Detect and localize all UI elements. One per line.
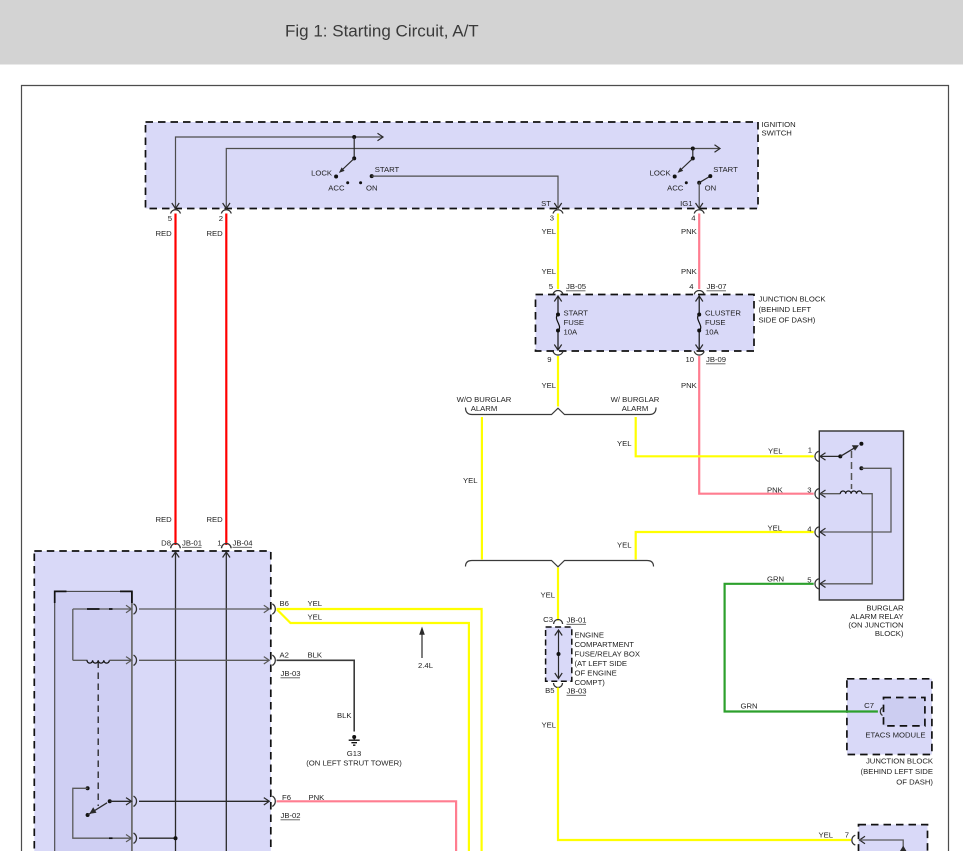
svg-text:YEL: YEL <box>768 447 783 456</box>
svg-text:YEL: YEL <box>463 476 478 485</box>
svg-text:YEL: YEL <box>308 599 323 608</box>
wire YEL from pin 3 to JB-05 <box>542 214 559 290</box>
wire JB-01 inside starter box <box>172 552 179 851</box>
starter relay row 2 wire (coil, to A2) <box>73 655 276 665</box>
relay pin 5 connector <box>807 576 825 589</box>
svg-text:ON: ON <box>705 183 717 192</box>
relay pin 3 connector <box>807 486 825 499</box>
relay switch <box>821 442 864 489</box>
svg-text:ST: ST <box>541 199 551 208</box>
svg-text:YEL: YEL <box>542 721 557 730</box>
engine compartment fuse/relay box <box>546 627 572 681</box>
svg-text:JB-07: JB-07 <box>707 282 727 291</box>
svg-text:(BEHIND LEFT SIDE: (BEHIND LEFT SIDE <box>861 767 933 776</box>
svg-text:START: START <box>564 309 589 318</box>
svg-text:PNK: PNK <box>681 227 698 236</box>
wire YEL B6 branch 1 <box>277 609 482 851</box>
svg-text:BLK: BLK <box>337 711 352 720</box>
svg-text:START: START <box>713 165 738 174</box>
svg-text:JB-02: JB-02 <box>281 811 301 820</box>
connector pin 10 / JB-09 <box>685 351 726 364</box>
wire IG1 from switch 2 <box>680 183 703 209</box>
svg-text:C3: C3 <box>543 615 553 624</box>
svg-text:ACC: ACC <box>667 183 684 192</box>
lower merge brace <box>466 561 654 567</box>
relay contact to pin 4 <box>821 466 892 532</box>
starter relay row 4 wire (to JB-01 node) <box>73 786 178 843</box>
connector pin 9 <box>547 351 563 364</box>
connector 1 / JB-04 <box>217 539 253 549</box>
svg-text:D8: D8 <box>161 539 171 548</box>
svg-text:Fig 1: Starting Circuit, A/T: Fig 1: Starting Circuit, A/T <box>285 22 479 41</box>
svg-text:B6: B6 <box>280 599 289 608</box>
svg-text:G13: G13 <box>347 749 362 758</box>
svg-text:ENGINE: ENGINE <box>575 631 604 640</box>
svg-text:RED: RED <box>207 229 224 238</box>
wire PNK from F6 <box>277 801 457 851</box>
wire ignition feed B (pin 2 branch) <box>223 145 720 209</box>
wire YEL left branch (W/O burglar alarm) <box>463 417 482 560</box>
svg-text:JB-01: JB-01 <box>182 539 202 548</box>
svg-text:YEL: YEL <box>617 439 632 448</box>
svg-text:SIDE OF DASH): SIDE OF DASH) <box>759 316 816 325</box>
starter relay coil loop <box>72 609 74 660</box>
wire YEL B6 branch 2 (2.4L) <box>277 610 469 852</box>
svg-text:CLUSTER: CLUSTER <box>705 309 741 318</box>
svg-text:LOCK: LOCK <box>311 168 333 177</box>
svg-text:JUNCTION BLOCK: JUNCTION BLOCK <box>759 295 827 304</box>
svg-text:10A: 10A <box>564 328 579 337</box>
svg-text:YEL: YEL <box>542 227 557 236</box>
svg-text:YEL: YEL <box>541 591 556 600</box>
svg-text:GRN: GRN <box>767 575 784 584</box>
connector C7 <box>864 701 882 716</box>
svg-text:(AT LEFT SIDE: (AT LEFT SIDE <box>575 659 628 668</box>
pin A2 labels / JB-03 <box>280 651 323 679</box>
svg-text:JB-09: JB-09 <box>706 355 726 364</box>
svg-text:IG1: IG1 <box>680 199 692 208</box>
svg-text:RED: RED <box>156 515 173 524</box>
svg-text:JB-03: JB-03 <box>281 669 301 678</box>
ground G13 <box>306 735 402 768</box>
svg-text:9: 9 <box>547 355 551 364</box>
svg-text:PNK: PNK <box>681 267 698 276</box>
wire RED from pin 2 <box>207 214 227 546</box>
2.4L pointer <box>418 627 434 671</box>
wire ignition feed A (pin 5 branch) <box>172 133 383 208</box>
svg-text:1: 1 <box>808 446 812 455</box>
wire BLK from A2 to ground <box>277 660 355 731</box>
ignition switch box <box>146 122 759 209</box>
svg-text:A2: A2 <box>280 651 289 660</box>
svg-text:YEL: YEL <box>617 541 632 550</box>
svg-text:COMPARTMENT: COMPARTMENT <box>575 640 635 649</box>
starter relay switch <box>86 799 112 817</box>
switch 2 (IG1 contact set) <box>650 149 738 193</box>
svg-text:START: START <box>375 165 400 174</box>
connector pin 3 of ignition switch <box>550 210 563 223</box>
svg-text:5: 5 <box>549 282 553 291</box>
svg-text:4: 4 <box>807 525 812 534</box>
burglar alarm relay box <box>819 431 903 600</box>
svg-text:JUNCTION BLOCK: JUNCTION BLOCK <box>866 757 934 766</box>
fuse START FUSE 10A <box>554 296 588 350</box>
relay coil <box>821 491 873 584</box>
branch labels W/O and W/ BURGLAR ALARM <box>457 395 660 413</box>
svg-text:FUSE/RELAY BOX: FUSE/RELAY BOX <box>575 650 641 659</box>
node on wire B <box>691 147 695 151</box>
wire YEL right branch to relay pin 1 <box>617 417 814 456</box>
svg-text:RED: RED <box>207 515 224 524</box>
starter relay row 3 wire (to F6) <box>110 796 276 806</box>
mechanical link dashed <box>97 662 99 807</box>
svg-text:FUSE: FUSE <box>705 318 726 327</box>
wire PNK from pin 4 to JB-07 <box>681 214 699 290</box>
svg-text:C7: C7 <box>864 701 874 710</box>
wire RED from pin 5 <box>156 214 176 546</box>
svg-text:YEL: YEL <box>542 381 557 390</box>
wire YEL from pin 9 <box>542 356 559 407</box>
svg-text:JB-05: JB-05 <box>566 282 586 291</box>
svg-text:2.4L: 2.4L <box>418 661 434 670</box>
svg-text:B5: B5 <box>545 686 554 695</box>
wire ST from switch 1 <box>372 176 562 208</box>
svg-text:GRN: GRN <box>741 702 758 711</box>
wire JB-04 inside starter box <box>223 552 230 851</box>
pin B6 labels <box>280 599 323 622</box>
starter relay box corner marks <box>55 591 132 603</box>
relay pin 4 connector <box>807 525 825 538</box>
svg-text:YEL: YEL <box>542 267 557 276</box>
engine compartment fuse box label <box>575 631 641 688</box>
starter relay inner box <box>55 591 132 853</box>
svg-text:YEL: YEL <box>819 831 834 840</box>
starter assembly dashed box <box>34 551 270 857</box>
connector D8 / JB-01 <box>161 539 202 549</box>
relay pin 1 connector <box>808 446 826 462</box>
svg-text:3: 3 <box>550 214 554 223</box>
svg-text:W/O BURGLAR: W/O BURGLAR <box>457 395 512 404</box>
svg-text:ALARM: ALARM <box>622 404 649 413</box>
svg-text:BLOCK): BLOCK) <box>875 629 904 638</box>
svg-text:PNK: PNK <box>681 381 698 390</box>
junction block (ETACS) outer box <box>847 679 932 755</box>
wire YEL from lower brace to C3 <box>541 568 559 621</box>
svg-text:YEL: YEL <box>768 524 783 533</box>
junction block (fuse box) <box>536 295 755 352</box>
switch 1 (ST contact set) <box>311 137 399 192</box>
svg-text:W/ BURGLAR: W/ BURGLAR <box>611 395 660 404</box>
connector pin 4 of ignition switch <box>691 210 704 223</box>
ETACS module inner box <box>884 698 925 726</box>
connector C3 / JB-01 <box>543 615 586 625</box>
svg-text:10A: 10A <box>705 328 720 337</box>
svg-text:(ON LEFT STRUT TOWER): (ON LEFT STRUT TOWER) <box>306 759 402 768</box>
svg-text:FUSE: FUSE <box>564 318 585 327</box>
svg-text:LOCK: LOCK <box>650 168 672 177</box>
svg-text:JB-04: JB-04 <box>233 539 254 548</box>
connector JB-07 <box>689 282 726 294</box>
junction block (dash) label <box>861 757 934 787</box>
svg-text:ON: ON <box>366 183 378 192</box>
wire inside engine compartment box <box>555 630 562 679</box>
svg-text:10: 10 <box>685 355 694 364</box>
svg-text:PNK: PNK <box>767 486 784 495</box>
svg-text:ETACS MODULE: ETACS MODULE <box>865 731 925 740</box>
upper split brace <box>466 408 657 415</box>
fuse CLUSTER FUSE 10A <box>696 296 742 350</box>
wire YEL from B5 to bottom connector 7 <box>542 688 852 841</box>
wire GRN from relay pin 5 to ETACS C7 <box>725 575 878 712</box>
svg-text:JB-03: JB-03 <box>567 687 587 696</box>
svg-text:3: 3 <box>807 486 811 495</box>
connector pin 5 of ignition switch <box>168 210 181 223</box>
connector pin 2 of ignition switch <box>219 210 232 223</box>
svg-text:5: 5 <box>168 214 172 223</box>
wire YEL from relay pin 4 down to lower brace <box>617 524 814 560</box>
svg-text:BLK: BLK <box>308 651 323 660</box>
svg-text:4: 4 <box>691 214 696 223</box>
svg-text:1: 1 <box>217 539 221 548</box>
svg-text:RED: RED <box>156 229 173 238</box>
junction block label <box>759 295 827 325</box>
connector JB-05 <box>549 282 586 294</box>
svg-text:7: 7 <box>845 831 849 840</box>
burglar alarm relay label <box>848 604 904 639</box>
ignition switch label <box>762 120 796 138</box>
pin F6 labels / JB-02 <box>281 793 326 820</box>
svg-text:4: 4 <box>689 282 694 291</box>
svg-text:(BEHIND LEFT: (BEHIND LEFT <box>759 305 812 314</box>
node on wire A <box>352 135 356 139</box>
svg-text:2: 2 <box>219 214 223 223</box>
svg-text:SWITCH: SWITCH <box>762 129 792 138</box>
wire PNK from pin 10 to relay pin 3 <box>681 356 814 495</box>
connector B5 / JB-03 <box>545 683 587 696</box>
bottom right module box <box>859 825 928 857</box>
svg-text:YEL: YEL <box>308 613 323 622</box>
svg-text:ACC: ACC <box>328 183 345 192</box>
svg-text:JB-01: JB-01 <box>567 616 587 625</box>
header bar <box>0 0 963 65</box>
svg-text:OF ENGINE: OF ENGINE <box>575 669 617 678</box>
svg-text:OF DASH): OF DASH) <box>896 778 933 787</box>
wire inside bottom right box <box>860 840 907 852</box>
connector pin 7 <box>845 831 865 846</box>
starter relay row 1 wire (to B6) <box>73 604 276 614</box>
svg-text:ALARM: ALARM <box>471 404 498 413</box>
